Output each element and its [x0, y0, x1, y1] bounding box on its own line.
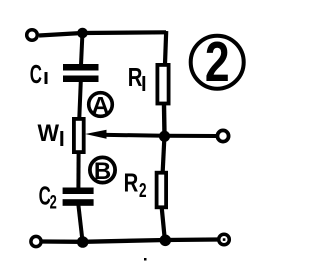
terminal bottom-left [31, 236, 41, 246]
node wiper junction [159, 131, 170, 142]
svg-text:2: 2 [205, 30, 230, 94]
wire junction to R2 [163, 137, 165, 172]
svg-text:2: 2 [50, 192, 57, 213]
figure number 2 (circled) [191, 30, 244, 94]
node top junction [77, 28, 88, 39]
wiper arrow of W1 [85, 130, 164, 139]
potentiometer W1 body [74, 119, 84, 152]
node bottom-right junction [160, 235, 172, 247]
wire top rail [39, 32, 166, 35]
wire left rail junction down to C1 [81, 32, 83, 65]
label R2 [124, 168, 147, 202]
label C1 [30, 59, 48, 89]
svg-text:W: W [38, 119, 60, 146]
resistor R2 body [157, 173, 167, 208]
label R1 [128, 63, 145, 92]
capacitor C1 plates [63, 64, 99, 82]
label C2 [39, 181, 57, 213]
svg-text:2: 2 [139, 179, 147, 201]
label W1 [38, 119, 64, 146]
wire C1 to W1 [79, 81, 81, 118]
terminal bottom-right [219, 234, 230, 245]
wire bottom rail [42, 240, 218, 242]
node A [89, 92, 113, 119]
terminal mid-right [217, 130, 228, 141]
wire R2 to bottom rail [162, 209, 165, 240]
svg-text:R: R [128, 63, 143, 92]
svg-text:C: C [30, 59, 42, 89]
node bottom-left junction [77, 236, 89, 248]
svg-text:A: A [92, 92, 110, 119]
terminal top-left [27, 30, 38, 41]
svg-text:B: B [94, 158, 111, 185]
capacitor C2 plates [63, 188, 94, 206]
node B [90, 157, 115, 184]
wire C2 to bottom rail [78, 205, 82, 241]
svg-text:R: R [124, 168, 139, 197]
wire W1 to C2 [76, 153, 80, 189]
wire right rail corner down to R1 [165, 31, 166, 64]
wire R1 to wiper junction [162, 105, 167, 135]
resistor R1 body [157, 65, 168, 104]
wire wiper junction to right terminal [165, 134, 217, 138]
speck (print artifact) [144, 258, 147, 261]
